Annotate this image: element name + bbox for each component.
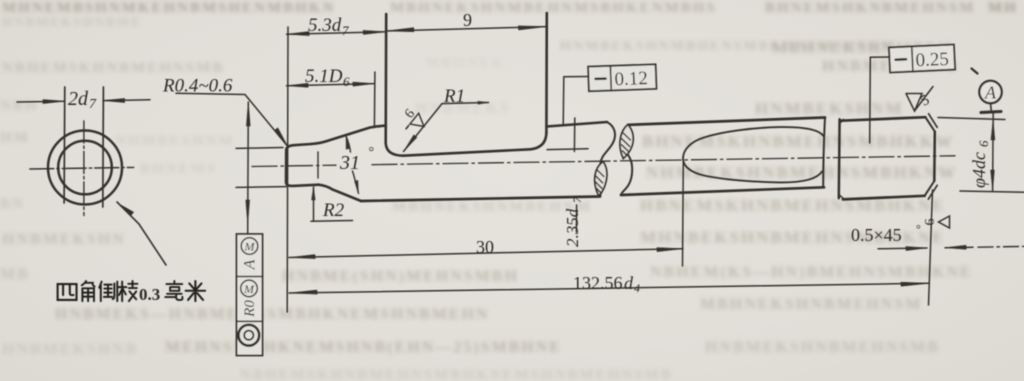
stray tick mark 1	[972, 69, 978, 74]
head bottom edge extension line	[547, 148, 588, 151]
end piece top edge	[841, 117, 925, 121]
internal bore lower curve (bullet)	[683, 159, 822, 183]
surface finish symbol 5 on chamfer	[906, 94, 922, 112]
svg-text:M: M	[243, 282, 255, 296]
frame leader top arrow	[246, 102, 250, 126]
svg-text:31: 31	[339, 152, 360, 174]
head left edge	[384, 14, 387, 143]
feature control frame divider 1	[237, 276, 263, 278]
feature control frame box	[237, 234, 263, 356]
break left hatched lens	[595, 162, 607, 197]
chamfer note glyph si	[58, 284, 77, 300]
extension line lower (tip bottom projection)	[236, 186, 286, 189]
extension line from chamfer corner	[929, 190, 933, 305]
shaft top edge right of head	[547, 122, 608, 127]
svg-text:4: 4	[634, 281, 640, 295]
arrowhead on chamfer leader	[120, 205, 134, 216]
shaft top edge after break	[629, 118, 825, 125]
right chord line (flat edge)	[102, 87, 105, 207]
head bottom-left corner R1	[386, 143, 403, 156]
head bottom edge	[403, 149, 531, 155]
datum reference A with M circle (top cell)	[241, 238, 258, 255]
extension line at tip face (long vertical)	[286, 27, 289, 312]
end piece bottom-left small chamfer	[839, 195, 844, 199]
svg-text:7: 7	[342, 23, 349, 38]
shaft bottom edge under head	[361, 197, 600, 202]
svg-text:A: A	[242, 259, 259, 270]
datum base / top extension line	[938, 118, 1005, 120]
leader shelf 0.5x45 with arrow	[878, 247, 927, 250]
main axis centerline	[252, 165, 336, 166]
svg-text:R2: R2	[322, 200, 345, 221]
datum symbol A circle	[979, 81, 1001, 103]
bottom extension line for diameter	[960, 191, 1024, 192]
end piece right edge	[933, 132, 936, 182]
left chord line (flat edge)	[63, 87, 66, 203]
dimension 2d7 line right	[103, 99, 150, 102]
svg-text:d: d	[624, 273, 634, 293]
svg-text:5.3d: 5.3d	[308, 15, 342, 36]
head bottom-right corner	[531, 133, 547, 150]
dimension 9 arrows	[386, 28, 414, 32]
leader shelf R0.4~0.6	[176, 93, 287, 145]
dimension 132.56d4 arrows	[289, 290, 317, 294]
chamfer note glyph mi	[186, 281, 206, 301]
svg-text:0.25: 0.25	[915, 49, 949, 71]
svg-text:9: 9	[463, 10, 472, 30]
extension line upper (tip top projection)	[236, 147, 283, 150]
internal bore upper curve (bullet)	[683, 127, 824, 158]
angle 31 deg lower arc and arrow	[353, 171, 359, 194]
svg-text:2.35d: 2.35d	[563, 208, 582, 247]
inner circle of end view	[58, 141, 112, 195]
feature control frame divider 2	[237, 320, 263, 322]
chamfer note glyph dao	[99, 282, 117, 302]
dimension 5.1D6 arrows	[287, 83, 309, 87]
svg-text:6: 6	[976, 140, 991, 147]
dimension 2.35d7 line upper	[573, 118, 575, 152]
extension line right of 5.1D6	[373, 72, 376, 127]
svg-text:A: A	[984, 83, 997, 103]
head right edge	[545, 13, 548, 133]
datum stem	[990, 103, 993, 112]
stray dash-dot line bottom right	[978, 245, 1024, 248]
svg-text:7: 7	[89, 97, 97, 112]
outer circle of end view	[48, 131, 122, 205]
dimension 2d7 arrow right	[103, 99, 125, 103]
svg-text:0.3: 0.3	[139, 285, 160, 304]
shaft bottom edge after break	[621, 187, 824, 195]
leader shelf R1	[442, 103, 489, 104]
leader vertical R2 with arrow	[313, 187, 315, 221]
label phi4dc6 rotated	[969, 140, 991, 188]
svg-text:7: 7	[570, 196, 584, 203]
straightness tolerance box 0.25	[889, 45, 955, 73]
break left S-curve	[599, 122, 615, 197]
dimension 5.3d7 line	[287, 32, 386, 34]
horizontal centerline of circle	[30, 167, 134, 169]
svg-text:0.5×45: 0.5×45	[851, 225, 902, 245]
main body break end edge	[823, 118, 825, 188]
svg-text:132.56: 132.56	[573, 273, 623, 293]
end piece bottom edge	[843, 196, 925, 200]
dimension 2.35d7 line lower	[575, 205, 577, 232]
end piece left edge	[838, 119, 841, 198]
end piece bottom-right chamfer	[925, 181, 935, 196]
svg-text:R0: R0	[242, 300, 258, 318]
frame leader vertical line	[247, 102, 250, 234]
dimension 2d7 line left	[17, 100, 64, 103]
svg-text:2d: 2d	[68, 88, 89, 110]
angle 31 deg upper arc and arrow	[346, 136, 351, 152]
straightness tolerance box 0.12	[588, 64, 656, 91]
dimension 30 line	[289, 249, 683, 258]
frame leader bottom arrow	[246, 200, 250, 224]
vertical centerline of circle	[83, 121, 85, 216]
leader of 0.25 box	[870, 57, 890, 143]
svg-text:6: 6	[343, 74, 350, 89]
end piece top-right chamfer	[925, 117, 934, 131]
dimension 2d7 arrow left	[43, 100, 64, 104]
dimension 132.56d4 line	[289, 283, 929, 293]
svg-text:0.12: 0.12	[614, 68, 648, 90]
svg-text:6: 6	[923, 219, 938, 226]
svg-text:M: M	[244, 240, 256, 254]
tip internal centerline tick	[317, 152, 319, 178]
chamfer note glyph jiao	[82, 281, 95, 301]
leader diagonal R1	[404, 104, 443, 152]
svg-text:φ4dc: φ4dc	[969, 152, 989, 188]
dimension 9 line	[386, 27, 547, 31]
dimension 30 arrows	[289, 255, 315, 259]
dimension 5.3d7 arrows	[287, 32, 310, 36]
dimension phi4dc6 vertical line	[992, 112, 995, 191]
leader of 0.12 box	[563, 77, 588, 126]
svg-text:°: °	[916, 222, 921, 236]
dimension phi4dc6 arrows	[991, 120, 995, 140]
leader for chamfer note	[117, 202, 166, 265]
extension line at bore apex	[682, 160, 685, 266]
break right S-curve	[621, 125, 632, 196]
concentricity symbol (bottom cell)	[238, 325, 259, 346]
surface finish symbol 6 on R1 leader	[396, 105, 429, 137]
svg-text:°: °	[369, 145, 375, 160]
label 2.35d7 rotated	[563, 196, 584, 247]
leader shelf R2	[311, 220, 353, 223]
svg-text:5.1D: 5.1D	[305, 66, 343, 87]
right stub of 0.5x45 with arrow	[945, 246, 973, 248]
break right hatched lens	[620, 125, 633, 159]
chamfer note glyph hao	[165, 281, 182, 300]
machining mark triangle 6	[923, 216, 950, 228]
svg-text:6: 6	[402, 107, 418, 122]
tolerance value R0 with M circle (middle cell)	[241, 280, 258, 297]
svg-text:30: 30	[476, 237, 494, 257]
end piece top-left small chamfer	[840, 119, 844, 123]
svg-text:5: 5	[918, 92, 932, 110]
shaft tip outline with rounded corners	[286, 144, 319, 186]
chamfer note glyph leng	[119, 281, 138, 301]
taper bottom edge with R2	[319, 185, 361, 201]
taper top edge 31 deg	[311, 126, 386, 144]
dimension 5.1D6 line	[287, 84, 375, 86]
